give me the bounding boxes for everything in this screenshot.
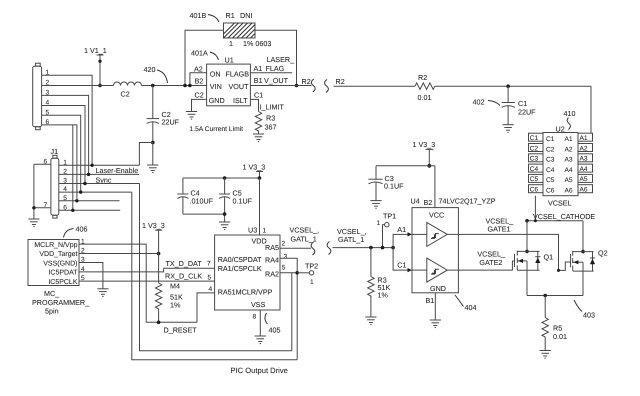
svg-text:A1: A1 xyxy=(565,136,573,143)
svg-text:FLAGB: FLAGB xyxy=(226,70,250,79)
wire MC pin5 IC5PCLK to U3 pin5 RX_D_CLK xyxy=(79,280,215,282)
svg-text:405: 405 xyxy=(269,326,281,335)
wire VOUT output B1 xyxy=(250,76,311,86)
wire outer wrap bottom xyxy=(132,192,297,360)
J1 right pin numbers xyxy=(63,159,67,211)
net label VCSEL_GATE1 xyxy=(486,217,515,234)
svg-text:D_RESET: D_RESET xyxy=(164,326,198,335)
svg-text:Q2: Q2 xyxy=(598,249,608,258)
U2 pin box labels left xyxy=(530,135,539,194)
wire branch to J1 pin6 xyxy=(72,125,74,210)
transistor Q1 (NMOS) xyxy=(515,250,554,271)
wire U3 RA4 pin 3 to outer wrap xyxy=(280,254,297,360)
wire cathode to Q1 drain xyxy=(526,221,528,252)
svg-text:403: 403 xyxy=(583,311,595,320)
wire MC pin2 VDD_Target to V3_3 xyxy=(79,252,160,256)
svg-text:0.01: 0.01 xyxy=(418,93,432,102)
label 410 with leader xyxy=(564,109,576,130)
capacitor C1 22UF xyxy=(502,86,537,125)
svg-text:1 V3_3: 1 V3_3 xyxy=(142,221,165,230)
ground R3 xyxy=(253,134,264,142)
svg-text:1 V1_1: 1 V1_1 xyxy=(84,46,107,55)
svg-text:U3: U3 xyxy=(248,226,257,235)
svg-text:1% 0603: 1% 0603 xyxy=(243,39,271,48)
svg-text:ISLT: ISLT xyxy=(233,96,248,105)
svg-text:74LVC2Q17_YZP: 74LVC2Q17_YZP xyxy=(439,197,496,206)
svg-text:A3: A3 xyxy=(565,157,573,164)
svg-text:TP1: TP1 xyxy=(383,211,396,220)
ground R5 xyxy=(540,351,551,359)
svg-text:C5: C5 xyxy=(530,176,539,183)
capacitor C5 0.1UF xyxy=(219,178,253,222)
wire source rail xyxy=(527,294,583,298)
svg-text:A6: A6 xyxy=(565,188,573,195)
label MC_PROGRAMMER_5pin xyxy=(32,289,90,316)
svg-text:C5: C5 xyxy=(546,177,555,184)
label 406 with leader xyxy=(64,225,88,238)
svg-text:PROGRAMMER_: PROGRAMMER_ xyxy=(32,298,90,307)
label 401B with leader xyxy=(190,11,220,22)
svg-text:1: 1 xyxy=(377,220,381,227)
label 403 with leader xyxy=(574,300,595,320)
ground C1 xyxy=(503,125,514,133)
svg-text:TX_D_DAT: TX_D_DAT xyxy=(166,259,203,268)
svg-text:C2: C2 xyxy=(546,146,555,153)
svg-text:B1: B1 xyxy=(254,76,263,85)
svg-text:RX_D_CLK: RX_D_CLK xyxy=(165,272,202,281)
test point TP1 xyxy=(377,211,397,247)
svg-text:TP2: TP2 xyxy=(305,262,318,271)
svg-text:RA51MCLR/VPP: RA51MCLR/VPP xyxy=(218,288,273,297)
wire U3 RA2 pin 5 to TP2 and inner wrap xyxy=(280,265,309,351)
wire P1 pin2 V1 rail to U1 VIN xyxy=(42,85,207,87)
svg-text:B1: B1 xyxy=(426,296,435,305)
wire Q1 source to rail xyxy=(526,270,528,295)
svg-text:A5: A5 xyxy=(565,177,573,184)
svg-text:A1: A1 xyxy=(254,64,263,73)
wire Laser-Enable to C2 node xyxy=(139,143,152,166)
node Q2 gate corner xyxy=(557,269,560,272)
svg-text:IC5PDAT: IC5PDAT xyxy=(48,270,78,277)
wire P1 pin4 xyxy=(42,106,85,184)
svg-text:5: 5 xyxy=(208,274,212,281)
node C2 tap xyxy=(151,84,155,88)
wire VCSEL_GATL_1 to U4 inputs xyxy=(333,246,395,250)
wire P1 pin1 to J1 pin1 xyxy=(42,75,93,165)
svg-text:VIN: VIN xyxy=(210,82,222,91)
resistor R3 367 xyxy=(255,112,276,134)
node V3_3 rail U4 xyxy=(427,164,431,168)
MC programmer connector 406 xyxy=(28,240,79,286)
label R1 value xyxy=(229,39,271,48)
net label VCSEL_GATL_1 at U3 xyxy=(290,226,320,244)
wire U3 VSS pin 8 to ground xyxy=(253,310,261,336)
wire J1 row2 Sync xyxy=(59,173,139,176)
wire R2 to U2 anode rail xyxy=(435,84,591,133)
svg-text:4: 4 xyxy=(209,286,213,293)
svg-text:C6: C6 xyxy=(546,188,555,195)
wire C4 C5 bottom rail xyxy=(183,212,227,216)
svg-text:GATL_1: GATL_1 xyxy=(291,235,317,244)
svg-text:Q1: Q1 xyxy=(544,253,554,262)
wire 401B loop xyxy=(183,30,298,87)
wire V3_3 rail to C3 and U4 VCC xyxy=(376,166,435,208)
svg-text:VOUT: VOUT xyxy=(229,82,250,91)
svg-text:RA2: RA2 xyxy=(265,270,279,279)
power net 1 V3_3 (U3) xyxy=(243,163,266,179)
svg-text:0.1UF: 0.1UF xyxy=(233,196,253,205)
wire VCSEL_GATE1 to Q2 gate xyxy=(447,234,570,270)
svg-text:Laser-Enable: Laser-Enable xyxy=(96,166,139,175)
wire cathode to Q2 drain xyxy=(582,221,584,252)
wire VCSEL_CATHODE rail xyxy=(525,219,583,223)
connector P1 body xyxy=(33,63,42,130)
net label VCSEL_GATE2 xyxy=(477,250,506,268)
svg-text:GND: GND xyxy=(209,96,225,105)
svg-text:C1: C1 xyxy=(397,260,406,269)
label 401A with leader xyxy=(191,49,219,61)
svg-text:A3: A3 xyxy=(580,156,588,163)
wire J1 row6 stub xyxy=(59,209,120,212)
svg-text:A6: A6 xyxy=(580,187,588,194)
resistor M4 51K pullup xyxy=(155,282,183,323)
wire V3_3 to U3 VDD pin 1 xyxy=(260,178,267,235)
svg-text:PIC Output Drive: PIC Output Drive xyxy=(231,366,288,375)
svg-text:1%: 1% xyxy=(170,301,181,310)
inductor 420 (C2 coil) xyxy=(114,82,142,99)
svg-text:DNI: DNI xyxy=(240,11,252,20)
svg-text:1: 1 xyxy=(310,279,314,286)
svg-text:GATE2: GATE2 xyxy=(479,258,502,267)
wire Q2 source to rail xyxy=(582,271,584,295)
ground U4 xyxy=(430,320,441,328)
U2 inner pin names xyxy=(546,136,573,195)
svg-text:GATL_1: GATL_1 xyxy=(338,235,364,244)
svg-text:VSS: VSS xyxy=(251,300,266,309)
svg-text:R1: R1 xyxy=(226,11,235,20)
svg-text:R2: R2 xyxy=(336,77,345,86)
svg-text:C3: C3 xyxy=(530,156,539,163)
J1 pin 6 left xyxy=(34,159,51,166)
net label LASER_FLAG xyxy=(266,55,296,73)
wire inner wrap bottom xyxy=(140,184,292,351)
svg-text:ON: ON xyxy=(210,70,221,79)
svg-text:1%: 1% xyxy=(378,291,389,300)
svg-text:C1: C1 xyxy=(254,91,263,100)
wire U1 GND pin C2 to ground xyxy=(192,91,207,112)
wire U2 cathode column down xyxy=(534,196,536,221)
ground U3 xyxy=(255,336,266,344)
svg-text:0.01: 0.01 xyxy=(553,332,567,341)
wire P1 pin5 xyxy=(42,115,81,192)
transistor Q2 (NMOS) xyxy=(571,249,608,272)
U2 left pin boxes C1-C6 xyxy=(529,133,544,193)
svg-text:R2: R2 xyxy=(302,77,311,86)
svg-text:RA5: RA5 xyxy=(265,243,279,252)
net label RX_D_CLK and pin 5 xyxy=(165,272,212,282)
svg-text:RA1/C5PCLK: RA1/C5PCLK xyxy=(218,264,262,273)
svg-text:VCSEL_CATHODE: VCSEL_CATHODE xyxy=(533,212,595,221)
net R2 right side break squiggle xyxy=(325,77,345,93)
label 404 with leader xyxy=(455,295,477,312)
svg-text:22UF: 22UF xyxy=(518,107,536,116)
wire J1 row5 stub xyxy=(59,199,120,202)
net label TX_D_DAT and pin 7 xyxy=(166,259,212,268)
J1 pin 7 left xyxy=(34,202,51,209)
svg-text:C4: C4 xyxy=(546,167,555,174)
svg-text:401B: 401B xyxy=(190,11,207,20)
svg-text:R2: R2 xyxy=(418,73,427,82)
svg-text:I_LIMIT: I_LIMIT xyxy=(260,103,285,112)
wire D_RESET row to U3 pin4 MCLR xyxy=(146,286,214,324)
svg-text:7: 7 xyxy=(207,260,211,267)
svg-text:RA4: RA4 xyxy=(265,256,279,265)
svg-text:VSS(GND): VSS(GND) xyxy=(43,259,77,267)
label 402 with leader xyxy=(473,98,501,107)
svg-text:FLAG: FLAG xyxy=(266,64,285,73)
svg-text:A1: A1 xyxy=(397,225,406,234)
MC pin numbers xyxy=(81,238,85,282)
svg-text:C2: C2 xyxy=(121,90,130,99)
node junction on V1 rail xyxy=(98,84,102,88)
VCSEL array U2 xyxy=(543,125,578,196)
power net 1 V3_3 (M4 pullup) xyxy=(142,221,165,283)
svg-text:C4: C4 xyxy=(530,166,539,173)
svg-text:1: 1 xyxy=(229,39,233,48)
resistor R2 0.01 xyxy=(415,73,435,102)
svg-text:C1: C1 xyxy=(530,135,539,142)
net label R2 with break squiggle xyxy=(302,77,316,92)
svg-text:A4: A4 xyxy=(580,166,588,173)
ground U1 xyxy=(186,112,197,120)
svg-text:V_OUT: V_OUT xyxy=(264,76,289,85)
PIC microcontroller U3 xyxy=(215,226,280,311)
wire FLAGB output A1 LASER_FLAG xyxy=(250,64,292,73)
capacitor C2 22UF xyxy=(147,86,180,143)
svg-text:.010UF: .010UF xyxy=(190,196,214,205)
svg-text:1 V3_3: 1 V3_3 xyxy=(243,163,266,172)
buffer U4 74LVC2Q17 xyxy=(411,197,496,294)
svg-text:2: 2 xyxy=(282,241,286,248)
svg-text:GATE1: GATE1 xyxy=(488,225,511,234)
op-amp U1 box (current limit switch) xyxy=(207,56,251,106)
svg-text:1: 1 xyxy=(263,228,267,235)
svg-text:C6: C6 xyxy=(530,187,539,194)
wire MC pin3 VSS to ground xyxy=(79,263,103,289)
wire MC pin1 MCLR to D_RESET xyxy=(79,244,146,322)
resistor R5 0.01 xyxy=(542,296,567,351)
svg-text:C3: C3 xyxy=(546,157,555,164)
svg-text:VCSEL: VCSEL xyxy=(548,199,572,208)
svg-text:3: 3 xyxy=(284,254,288,261)
svg-text:8: 8 xyxy=(253,314,257,321)
U4 buffer triangle 2 xyxy=(427,258,448,282)
wire to A1 input with arrow xyxy=(393,225,427,248)
svg-text:U4: U4 xyxy=(411,197,420,206)
svg-text:GND: GND xyxy=(430,284,446,293)
connector P1 pin numbers xyxy=(46,69,50,126)
label R1 DNI xyxy=(226,11,253,20)
svg-text:0.1UF: 0.1UF xyxy=(384,182,404,191)
svg-text:5: 5 xyxy=(282,265,286,272)
resistor R3 51K pulldown xyxy=(368,248,391,317)
wire C4 C5 top rail xyxy=(183,176,261,180)
connector J1 body xyxy=(51,147,59,218)
svg-text:C2: C2 xyxy=(530,145,539,152)
svg-text:U1: U1 xyxy=(225,56,234,65)
svg-text:420: 420 xyxy=(144,65,156,74)
wire U4 B1 to ground xyxy=(426,293,436,320)
wire J1 pin6-pin7 to ground xyxy=(32,164,35,219)
wire R2 net to resistor R2 xyxy=(334,85,416,87)
svg-text:A2: A2 xyxy=(565,146,573,153)
capacitor C4 .010UF xyxy=(177,178,213,214)
net label VCSEL_GATL_1 input with break squiggle xyxy=(327,227,366,255)
svg-text:VCC: VCC xyxy=(429,211,444,220)
svg-text:A5: A5 xyxy=(580,176,588,183)
svg-text:A1: A1 xyxy=(580,135,588,142)
ground C3 xyxy=(370,201,381,209)
ground C4 C5 xyxy=(219,222,230,230)
svg-text:B2: B2 xyxy=(424,198,433,207)
node below C2 xyxy=(151,141,155,145)
power net 1 V1_1 xyxy=(84,46,107,86)
svg-text:J1: J1 xyxy=(51,147,59,156)
wire U3 RA5 pin 2 output VCSEL_GATL_1 xyxy=(280,241,315,256)
power net 1 V3_3 (U4) xyxy=(413,140,436,166)
wire P1 pin3 xyxy=(42,95,89,174)
svg-text:A4: A4 xyxy=(565,167,573,174)
svg-text:C2: C2 xyxy=(195,91,204,100)
svg-text:367: 367 xyxy=(265,123,277,132)
svg-text:1.5A Current Limit: 1.5A Current Limit xyxy=(190,126,244,133)
capacitor C3 0.1UF xyxy=(368,166,404,201)
svg-text:406: 406 xyxy=(76,225,88,234)
svg-text:VDD_Target: VDD_Target xyxy=(39,251,77,258)
label 420 with leader xyxy=(144,65,168,83)
svg-text:MC_: MC_ xyxy=(44,289,60,298)
ground R3 51K xyxy=(365,317,376,325)
test point TP2 xyxy=(305,262,318,287)
wire U1 pin A2 ON tie to VIN xyxy=(188,64,207,87)
svg-text:A2: A2 xyxy=(580,145,588,152)
U2 right pin boxes A1-A6 xyxy=(578,133,593,193)
U4 buffer triangle 1 xyxy=(427,222,448,246)
svg-text:VCSEL_,: VCSEL_, xyxy=(290,226,320,235)
wire ISLT pin C1 to R3 xyxy=(250,91,284,112)
svg-text:402: 402 xyxy=(473,98,485,107)
label 405 with leader xyxy=(265,313,281,335)
resistor R1 DNI (hatched, do-not-install) xyxy=(224,23,256,38)
svg-text:410: 410 xyxy=(564,109,576,118)
svg-text:RA0/C5PDAT: RA0/C5PDAT xyxy=(218,255,262,264)
svg-text:MCLR_N/Vpp: MCLR_N/Vpp xyxy=(34,241,77,249)
ground MC VSS xyxy=(97,289,108,297)
ground below C2 xyxy=(147,143,158,173)
svg-text:C1: C1 xyxy=(546,136,555,143)
ground below J1 xyxy=(28,219,39,227)
wire P1 pin6 xyxy=(42,125,77,201)
svg-text:M4: M4 xyxy=(170,282,180,291)
U2 pin box labels right xyxy=(580,135,588,194)
svg-text:22UF: 22UF xyxy=(162,118,180,127)
svg-text:R3: R3 xyxy=(266,114,275,123)
svg-text:1 V3_3: 1 V3_3 xyxy=(413,140,436,149)
svg-text:5pin: 5pin xyxy=(45,307,59,316)
svg-text:404: 404 xyxy=(465,303,477,312)
wire J1 row3 to inner wrap xyxy=(59,182,140,185)
wire MC pin4 IC5PDAT to U3 pin7 TX_D_DAT xyxy=(79,268,215,272)
svg-text:IC5PCLK: IC5PCLK xyxy=(48,279,78,286)
svg-text:401A: 401A xyxy=(191,49,208,58)
svg-text:B2: B2 xyxy=(195,77,204,86)
wire J1 row1 Laser-Enable xyxy=(59,164,140,167)
wire to C1 input with arrow xyxy=(393,248,427,273)
wire J1 row4 to outer wrap xyxy=(59,190,132,193)
svg-text:A2: A2 xyxy=(194,64,203,73)
wire VCSEL_GATE2 to Q1 gate xyxy=(447,261,514,270)
svg-text:LASER_: LASER_ xyxy=(267,55,296,64)
